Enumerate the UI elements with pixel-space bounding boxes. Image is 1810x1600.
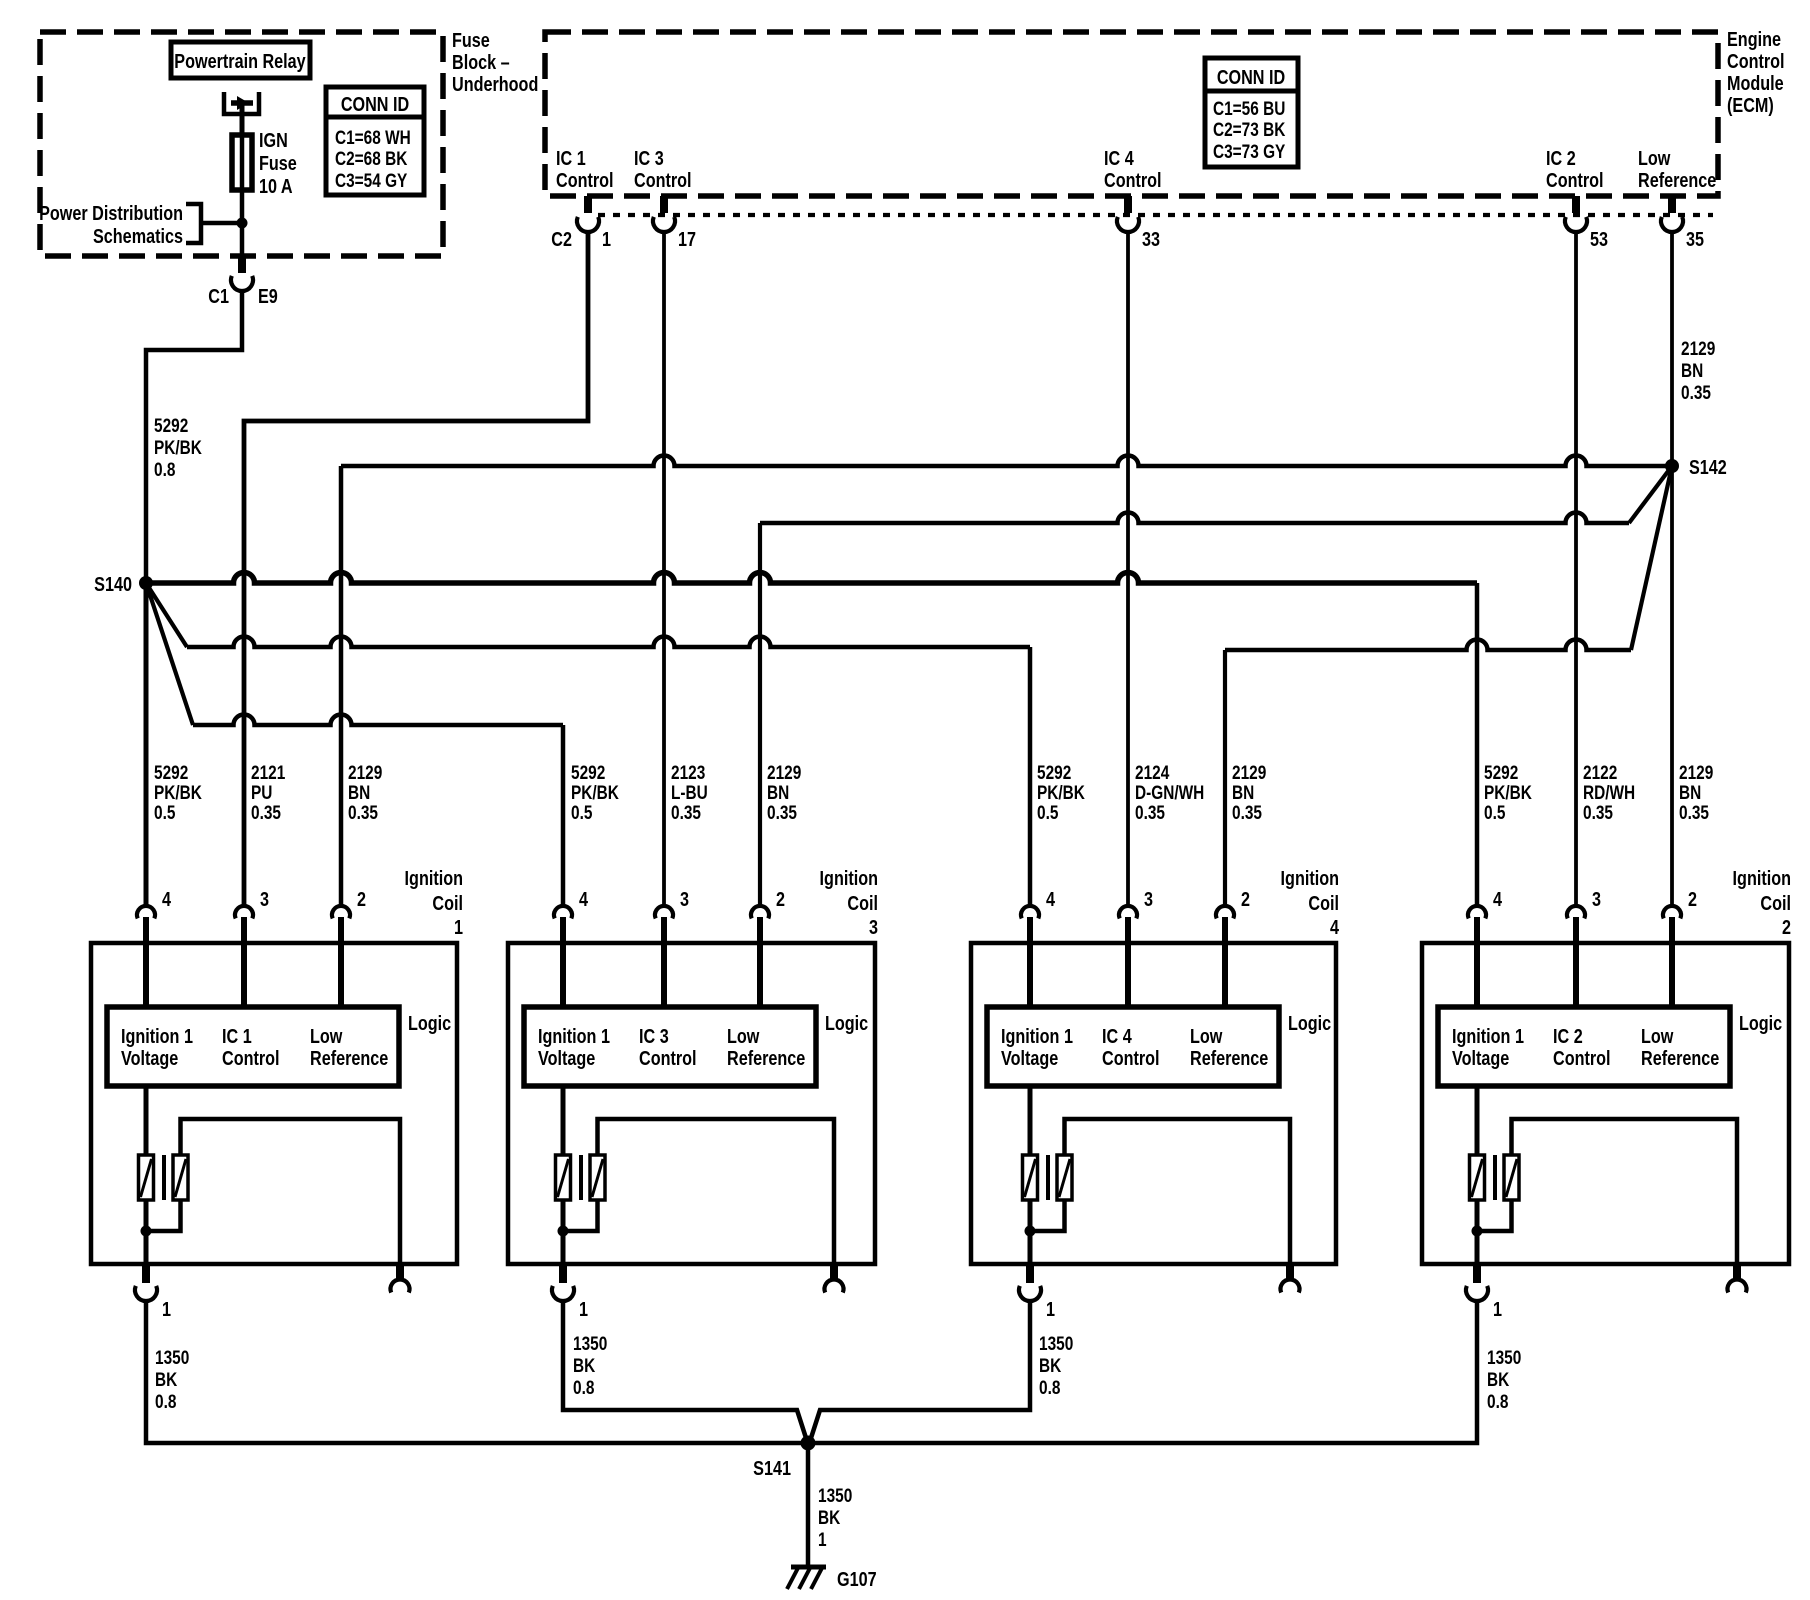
coil 1 core: [162, 1155, 166, 1200]
svg-text:1350: 1350: [1487, 1346, 1521, 1368]
splice S142: [1665, 455, 1727, 478]
coil 4 secondary output connector: [1281, 1266, 1300, 1293]
svg-text:C1: C1: [208, 284, 229, 307]
svg-text:1350: 1350: [1039, 1332, 1073, 1354]
svg-text:Logic: Logic: [408, 1011, 451, 1034]
coil 1 primary winding: [139, 1086, 154, 1266]
svg-text:Logic: Logic: [825, 1011, 868, 1034]
coil 2 Logic label: [1739, 1011, 1782, 1034]
svg-text:Schematics: Schematics: [93, 224, 183, 247]
coil 2 primary winding: [1470, 1086, 1485, 1266]
svg-text:BN: BN: [767, 781, 789, 803]
svg-text:G107: G107: [837, 1567, 877, 1590]
svg-text:35: 35: [1686, 227, 1704, 250]
label 5292 PK/BK 0.5: [571, 761, 619, 823]
coil 3 pin 2 connector: [751, 887, 785, 1007]
label 1350 BK 1: [818, 1484, 852, 1550]
svg-text:C1=56 BU: C1=56 BU: [1213, 97, 1285, 119]
svg-text:IGN: IGN: [259, 128, 288, 151]
coil 4 pin 2 connector: [1216, 887, 1250, 1007]
label 1350 BK 0.8 (coil 2): [1487, 1346, 1521, 1412]
svg-text:2124: 2124: [1135, 761, 1169, 783]
svg-text:2129: 2129: [767, 761, 801, 783]
svg-text:1: 1: [579, 1297, 588, 1320]
svg-text:C3=73 GY: C3=73 GY: [1213, 140, 1286, 162]
wire fuse to connector C1: [240, 190, 245, 256]
wire 2129 S142 to coil 2 pin 2: [1670, 466, 1674, 906]
label 2121 PU 0.35: [251, 761, 285, 823]
svg-text:1: 1: [1493, 1297, 1502, 1320]
coil 2 secondary winding: [1477, 1119, 1737, 1266]
wire 5292 S140 to ignition coil 1 pin 4: [144, 583, 149, 906]
svg-text:2129: 2129: [1681, 337, 1715, 359]
svg-text:Ignition 1: Ignition 1: [121, 1024, 193, 1047]
ECM pin 53 IC 2 Control: [1546, 146, 1608, 250]
svg-text:S142: S142: [1689, 455, 1727, 478]
svg-text:2129: 2129: [348, 761, 382, 783]
svg-text:0.8: 0.8: [155, 1390, 177, 1412]
coil 1 winding junction: [141, 1226, 152, 1237]
svg-text:0.35: 0.35: [1679, 801, 1709, 823]
svg-text:Control: Control: [639, 1046, 697, 1069]
coil 2 pin 4 connector: [1468, 887, 1503, 1007]
coil 4 terminal labels: [1001, 1024, 1268, 1069]
svg-text:0.5: 0.5: [154, 801, 176, 823]
coil 4 pin 4 connector: [1021, 887, 1056, 1007]
svg-text:17: 17: [678, 227, 696, 250]
svg-text:(ECM): (ECM): [1727, 93, 1774, 116]
ECM connector C2 dotted line: [598, 213, 1713, 217]
svg-text:L-BU: L-BU: [671, 781, 708, 803]
label 2122 RD/WH 0.35: [1583, 761, 1635, 823]
svg-text:C2: C2: [551, 227, 572, 250]
svg-text:Control: Control: [556, 168, 614, 191]
label 2129 BN 0.35: [767, 761, 801, 823]
svg-text:S140: S140: [94, 572, 132, 595]
relay K: Powertrain Relay box: [171, 42, 310, 78]
svg-text:Coil: Coil: [847, 891, 878, 914]
ignition coil 2 box: [1422, 943, 1789, 1264]
svg-text:0.8: 0.8: [573, 1376, 595, 1398]
svg-text:Low: Low: [1638, 146, 1671, 169]
svg-text:BK: BK: [155, 1368, 178, 1390]
svg-text:BN: BN: [1232, 781, 1254, 803]
svg-text:PK/BK: PK/BK: [154, 781, 202, 803]
fuse F: IGN Fuse 10 A: [232, 128, 297, 197]
ignition coil 1 box: [91, 943, 457, 1264]
coil 2 core: [1493, 1155, 1497, 1200]
svg-text:0.35: 0.35: [1135, 801, 1165, 823]
svg-text:BK: BK: [1487, 1368, 1510, 1390]
splice S141: [753, 1436, 815, 1480]
svg-text:0.35: 0.35: [671, 801, 701, 823]
label 5292 PK/BK 0.5: [1484, 761, 1532, 823]
label 5292 PK/BK 0.8: [154, 414, 202, 480]
wire 5292 PK/BK 0.8 from E9 to S140: [146, 290, 242, 577]
svg-text:Reference: Reference: [727, 1046, 805, 1069]
coil 2 terminal labels: [1452, 1024, 1719, 1069]
svg-text:CONN ID: CONN ID: [341, 92, 409, 115]
svg-text:Module: Module: [1727, 71, 1784, 94]
svg-text:33: 33: [1142, 227, 1160, 250]
svg-text:Voltage: Voltage: [538, 1046, 595, 1069]
svg-text:1350: 1350: [155, 1346, 189, 1368]
wire 1350 BK coil 2 pin 1 to S141: [815, 1300, 1477, 1443]
svg-text:0.35: 0.35: [1232, 801, 1262, 823]
svg-text:BN: BN: [1681, 359, 1703, 381]
coil 4 logic terminal box: [987, 1007, 1279, 1086]
coil 3 secondary winding: [563, 1119, 834, 1266]
coil 4 core: [1046, 1155, 1050, 1200]
label 2124 D-GN/WH 0.35: [1135, 761, 1204, 823]
ignition coil 4 label: [1281, 866, 1340, 938]
label 1350 BK 0.8 (coil 4): [1039, 1332, 1073, 1398]
coil 4 Logic label: [1288, 1011, 1331, 1034]
wire 2129 S142 to coil 1 pin 2: [341, 456, 1672, 906]
wire 2123 L-BU IC 3 control, ECM pin 17 to coil 3 pin 3: [662, 230, 666, 906]
svg-text:4: 4: [579, 887, 589, 910]
svg-text:0.5: 0.5: [571, 801, 593, 823]
svg-text:Ignition: Ignition: [1281, 866, 1339, 889]
svg-text:5292: 5292: [154, 761, 188, 783]
wire 5292 S140 to ignition coil 2 pin 4: [146, 573, 1477, 907]
svg-text:0.35: 0.35: [767, 801, 797, 823]
coil 2 secondary output connector: [1728, 1266, 1747, 1293]
svg-text:Reference: Reference: [310, 1046, 388, 1069]
svg-text:RD/WH: RD/WH: [1583, 781, 1635, 803]
wire 1350 BK coil 1 pin 1 to S141: [146, 1300, 801, 1443]
svg-text:Ignition 1: Ignition 1: [538, 1024, 610, 1047]
svg-text:0.5: 0.5: [1037, 801, 1059, 823]
svg-text:2: 2: [357, 887, 366, 910]
label 1350 BK 0.8 (coil 3): [573, 1332, 607, 1398]
svg-text:0.8: 0.8: [154, 458, 176, 480]
svg-text:BN: BN: [348, 781, 370, 803]
svg-text:IC 2: IC 2: [1546, 146, 1576, 169]
svg-text:PK/BK: PK/BK: [1037, 781, 1085, 803]
svg-text:0.35: 0.35: [1583, 801, 1613, 823]
svg-text:Coil: Coil: [1308, 891, 1339, 914]
svg-text:PK/BK: PK/BK: [154, 436, 202, 458]
ECM pin 1 IC 1 Control: [556, 146, 614, 250]
power distribution schematics reference: [39, 201, 240, 247]
svg-text:0.8: 0.8: [1487, 1390, 1509, 1412]
ignition coil 3 label: [820, 866, 878, 938]
wire 2129 S142 to coil 4 pin 2: [1225, 466, 1672, 906]
svg-text:Control: Control: [1727, 49, 1785, 72]
svg-text:IC 4: IC 4: [1104, 146, 1134, 169]
svg-text:Logic: Logic: [1739, 1011, 1782, 1034]
svg-text:5292: 5292: [571, 761, 605, 783]
svg-text:Control: Control: [1102, 1046, 1160, 1069]
coil 4 secondary winding: [1030, 1119, 1290, 1266]
coil 2 logic terminal box: [1438, 1007, 1730, 1086]
junction node at fuse output: [237, 218, 248, 229]
wire 1350 BK coil 3 pin 1 to S141: [563, 1300, 806, 1438]
svg-text:10 A: 10 A: [259, 174, 293, 197]
coil 2 pin 2 connector: [1663, 887, 1697, 1007]
svg-text:0.35: 0.35: [348, 801, 378, 823]
splice S140: [94, 572, 153, 595]
ignition coil 3 box: [508, 943, 875, 1264]
svg-text:C2=68 BK: C2=68 BK: [335, 147, 408, 169]
label 2129 BN 0.35: [1232, 761, 1266, 823]
wire 2121 PU IC 1 control, ECM pin 1 to coil 1 pin 3: [244, 230, 588, 906]
svg-text:IC 1: IC 1: [556, 146, 586, 169]
coil 3 secondary output connector: [825, 1266, 844, 1293]
connector C1 / E9: [208, 256, 278, 307]
svg-text:1350: 1350: [573, 1332, 607, 1354]
svg-text:IC 2: IC 2: [1553, 1024, 1583, 1047]
svg-text:IC 4: IC 4: [1102, 1024, 1132, 1047]
svg-text:5292: 5292: [154, 414, 188, 436]
coil 3 primary winding: [556, 1086, 571, 1266]
svg-text:Low: Low: [1641, 1024, 1674, 1047]
wire 5292 S140 to ignition coil 4 pin 4: [146, 583, 1030, 906]
svg-text:4: 4: [1493, 887, 1503, 910]
wire 2129 BN ECM pin 35 to S142: [1670, 230, 1674, 460]
svg-text:0.8: 0.8: [1039, 1376, 1061, 1398]
svg-text:C3=54 GY: C3=54 GY: [335, 169, 408, 191]
svg-text:Voltage: Voltage: [1001, 1046, 1058, 1069]
svg-text:Low: Low: [1190, 1024, 1223, 1047]
fuse block label: [452, 28, 538, 95]
wire 2122 RD/WH IC 2 control, ECM pin 53 to coil 2 pin 3: [1574, 230, 1578, 906]
svg-text:Control: Control: [222, 1046, 280, 1069]
conn id table (fuse block): [326, 87, 424, 195]
svg-text:0.35: 0.35: [1681, 381, 1711, 403]
coil 2 winding junction: [1472, 1226, 1483, 1237]
svg-text:Voltage: Voltage: [1452, 1046, 1509, 1069]
label 5292 PK/BK 0.5: [1037, 761, 1085, 823]
svg-text:1: 1: [1046, 1297, 1055, 1320]
coil 3 pin 1 connector: [552, 1266, 588, 1320]
label 1350 BK 0.8 (coil 1): [155, 1346, 189, 1412]
svg-text:IC 1: IC 1: [222, 1024, 252, 1047]
svg-text:Underhood: Underhood: [452, 72, 538, 95]
svg-text:Engine: Engine: [1727, 27, 1781, 50]
svg-text:Reference: Reference: [1641, 1046, 1719, 1069]
coil 3 terminal labels: [538, 1024, 805, 1069]
svg-text:4: 4: [162, 887, 172, 910]
svg-text:Ignition: Ignition: [820, 866, 878, 889]
svg-text:4: 4: [1046, 887, 1056, 910]
svg-text:Control: Control: [1553, 1046, 1611, 1069]
svg-text:Ignition 1: Ignition 1: [1001, 1024, 1073, 1047]
coil 4 winding junction: [1025, 1226, 1036, 1237]
svg-text:5292: 5292: [1484, 761, 1518, 783]
coil 3 winding junction: [558, 1226, 569, 1237]
svg-text:5292: 5292: [1037, 761, 1071, 783]
svg-text:1: 1: [162, 1297, 171, 1320]
svg-text:Coil: Coil: [1760, 891, 1791, 914]
svg-text:4: 4: [1330, 915, 1340, 938]
svg-text:Power Distribution: Power Distribution: [39, 201, 183, 224]
svg-text:2: 2: [1241, 887, 1250, 910]
svg-text:BN: BN: [1679, 781, 1701, 803]
svg-text:BK: BK: [1039, 1354, 1062, 1376]
wire 1350 BK coil 4 pin 1 to S141: [811, 1300, 1030, 1438]
svg-text:S141: S141: [753, 1456, 791, 1479]
svg-text:2122: 2122: [1583, 761, 1617, 783]
svg-text:IC 3: IC 3: [639, 1024, 669, 1047]
relay contact symbol: [224, 92, 259, 135]
label 2129 BN 0.35: [1679, 761, 1713, 823]
svg-text:3: 3: [869, 915, 878, 938]
svg-text:E9: E9: [258, 284, 278, 307]
wire 5292 S140 to ignition coil 3 pin 4: [146, 583, 563, 906]
coil 3 core: [579, 1155, 583, 1200]
svg-text:2129: 2129: [1679, 761, 1713, 783]
svg-text:Control: Control: [1546, 168, 1604, 191]
coil 1 pin 4 connector: [137, 887, 172, 1007]
svg-text:Logic: Logic: [1288, 1011, 1331, 1034]
coil 2 pin 1 connector: [1466, 1266, 1502, 1320]
svg-text:Fuse: Fuse: [259, 151, 297, 174]
svg-text:0.35: 0.35: [251, 801, 281, 823]
ground G107: [787, 1567, 877, 1590]
ECM pin 33 IC 4 Control: [1104, 146, 1162, 250]
coil 1 terminal labels: [121, 1024, 388, 1069]
coil 4 pin 1 connector: [1019, 1266, 1055, 1320]
coil 3 Logic label: [825, 1011, 868, 1034]
coil 1 Logic label: [408, 1011, 451, 1034]
coil 1 secondary output connector: [391, 1266, 410, 1293]
coil 3 pin 3 connector: [655, 887, 689, 1007]
svg-text:1: 1: [454, 915, 463, 938]
svg-text:BK: BK: [818, 1506, 841, 1528]
svg-text:2129: 2129: [1232, 761, 1266, 783]
svg-text:Reference: Reference: [1638, 168, 1716, 191]
svg-text:D-GN/WH: D-GN/WH: [1135, 781, 1204, 803]
svg-text:Control: Control: [634, 168, 692, 191]
svg-text:BK: BK: [573, 1354, 596, 1376]
svg-text:3: 3: [1592, 887, 1601, 910]
svg-text:Fuse: Fuse: [452, 28, 490, 51]
svg-text:PK/BK: PK/BK: [1484, 781, 1532, 803]
svg-text:PU: PU: [251, 781, 272, 803]
coil 1 pin 1 connector: [135, 1266, 171, 1320]
svg-text:IC 3: IC 3: [634, 146, 664, 169]
svg-text:2: 2: [776, 887, 785, 910]
coil 4 primary winding: [1023, 1086, 1038, 1266]
ECM pin 17 IC 3 Control: [634, 146, 696, 250]
label 2129 BN 0.35 at pin 35: [1681, 337, 1715, 403]
label 2123 L-BU 0.35: [671, 761, 708, 823]
svg-text:Control: Control: [1104, 168, 1162, 191]
svg-text:53: 53: [1590, 227, 1608, 250]
svg-text:Powertrain Relay: Powertrain Relay: [174, 49, 306, 72]
coil 1 pin 2 connector: [332, 887, 366, 1007]
svg-text:1: 1: [818, 1528, 827, 1550]
ignition coil 2 label: [1733, 866, 1791, 938]
coil 2 pin 3 connector: [1567, 887, 1601, 1007]
svg-text:Ignition: Ignition: [405, 866, 463, 889]
svg-text:3: 3: [260, 887, 269, 910]
svg-text:Low: Low: [727, 1024, 760, 1047]
wire 2124 D-GN/WH IC 4 control, ECM pin 33 to coil 4 pin 3: [1126, 230, 1130, 906]
svg-text:Reference: Reference: [1190, 1046, 1268, 1069]
svg-text:3: 3: [1144, 887, 1153, 910]
svg-text:1: 1: [602, 227, 611, 250]
ECM pin 35 Low Reference: [1638, 146, 1716, 250]
svg-text:Ignition 1: Ignition 1: [1452, 1024, 1524, 1047]
label 5292 PK/BK 0.5: [154, 761, 202, 823]
svg-text:2: 2: [1782, 915, 1791, 938]
label 2129 BN 0.35: [348, 761, 382, 823]
svg-text:Low: Low: [310, 1024, 343, 1047]
svg-text:Block –: Block –: [452, 50, 510, 73]
svg-text:CONN ID: CONN ID: [1217, 65, 1285, 88]
coil 3 pin 4 connector: [554, 887, 589, 1007]
svg-text:1350: 1350: [818, 1484, 852, 1506]
ignition coil 1 label: [405, 866, 463, 938]
wire 2129 S142 to coil 3 pin 2: [760, 466, 1672, 906]
svg-text:Voltage: Voltage: [121, 1046, 178, 1069]
svg-text:Ignition: Ignition: [1733, 866, 1791, 889]
svg-text:C2=73 BK: C2=73 BK: [1213, 118, 1286, 140]
engine control module (ECM) dashed box: [545, 32, 1718, 196]
coil 4 pin 3 connector: [1119, 887, 1153, 1007]
svg-text:3: 3: [680, 887, 689, 910]
coil 1 pin 3 connector: [235, 887, 269, 1007]
ignition coil 4 box: [971, 943, 1336, 1264]
svg-text:2121: 2121: [251, 761, 285, 783]
coil 1 logic terminal box: [107, 1007, 399, 1086]
conn id table (ECM): [1205, 58, 1298, 167]
svg-text:0.5: 0.5: [1484, 801, 1506, 823]
coil 3 logic terminal box: [524, 1007, 816, 1086]
wire 1350 BK S141 to ground: [806, 1443, 811, 1568]
svg-text:PK/BK: PK/BK: [571, 781, 619, 803]
svg-text:Coil: Coil: [432, 891, 463, 914]
svg-text:C1=68 WH: C1=68 WH: [335, 126, 411, 148]
coil 1 secondary winding: [146, 1119, 400, 1266]
connector C2 label: [551, 227, 572, 250]
svg-text:2: 2: [1688, 887, 1697, 910]
ECM label: [1727, 27, 1785, 116]
svg-text:2123: 2123: [671, 761, 705, 783]
fuse block - underhood dashed box: [40, 32, 443, 256]
